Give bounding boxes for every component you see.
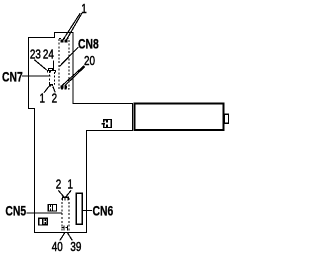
connector CN7 header top (pins 23/24 comb) xyxy=(47,69,56,73)
leader line CN6 xyxy=(82,209,91,211)
leader line 23 to CN7 xyxy=(34,60,47,71)
svg-text:24: 24 xyxy=(43,48,54,62)
leader line 40 xyxy=(60,233,65,240)
CN7 pin 2 (bottom) xyxy=(52,84,54,86)
svg-text:1: 1 xyxy=(68,179,73,193)
connector CN7 (dashed body) xyxy=(50,71,55,85)
svg-text:2: 2 xyxy=(56,179,61,193)
svg-text:CN8: CN8 xyxy=(78,36,99,52)
svg-text:CN5: CN5 xyxy=(5,203,26,219)
icon connector 2 (lower) xyxy=(38,218,48,226)
svg-text:39: 39 xyxy=(70,241,81,255)
leader line CN8 xyxy=(60,47,79,66)
component U1 (large module on right arm) xyxy=(135,104,224,130)
connector CN5 (dashed body) xyxy=(62,197,69,232)
svg-text:CN6: CN6 xyxy=(93,203,114,219)
leader line CN7 pin2 xyxy=(53,86,55,92)
svg-text:20: 20 xyxy=(84,55,95,69)
icon connector on arm xyxy=(101,119,113,128)
leader line 24 to CN7 xyxy=(52,61,54,71)
leader line 2 to CN5 xyxy=(58,190,64,197)
leader line CN7 pin1 xyxy=(44,86,49,92)
CN8 pin (bottom right) xyxy=(65,86,68,89)
leader line 39 xyxy=(68,233,73,240)
CN8 pin 20 (bottom left) xyxy=(61,86,64,89)
leader lines from 1 to CN8 top pins xyxy=(63,13,82,40)
board outline xyxy=(29,33,133,233)
svg-text:1: 1 xyxy=(40,92,45,106)
svg-text:40: 40 xyxy=(52,241,63,255)
CN7 pin 1 (bottom) xyxy=(49,84,51,87)
svg-text:CN7: CN7 xyxy=(2,69,23,85)
icon connector 1 (left of CN5 box) xyxy=(48,204,58,212)
CN8 pin (top right) xyxy=(65,40,68,43)
leader line CN7 xyxy=(22,75,51,77)
connector CN8 (dashed outline) xyxy=(59,39,69,90)
CN8 pin 1 (top left pin) xyxy=(61,40,64,43)
svg-text:1: 1 xyxy=(81,3,86,17)
leader lines from 20 to CN8 bottom pins xyxy=(62,66,85,86)
component U1 right notch xyxy=(224,114,228,123)
leader line CN5 xyxy=(26,212,62,214)
svg-text:2: 2 xyxy=(52,92,57,106)
connector CN6 (solid body) xyxy=(76,193,82,224)
leader line 1 to CN5 xyxy=(66,190,72,197)
svg-text:23: 23 xyxy=(30,48,41,62)
